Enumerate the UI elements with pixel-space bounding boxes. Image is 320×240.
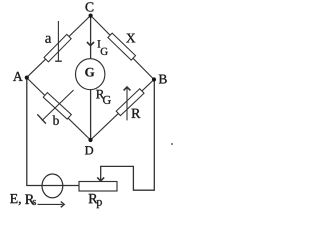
label R — [132, 109, 141, 118]
label b — [53, 115, 59, 125]
variable arrow line of resistor R — [126, 88, 128, 120]
label A — [13, 72, 23, 81]
node C dot — [89, 14, 93, 18]
node D dot — [88, 138, 92, 142]
label R of R_p — [89, 194, 98, 203]
node B dot — [152, 77, 156, 81]
potentiometer Rp box — [79, 182, 117, 192]
arrowhead of current I_G — [87, 42, 94, 46]
node A dot — [25, 76, 29, 80]
label D — [85, 146, 93, 154]
resistor b — [43, 93, 71, 120]
wire from potentiometer wiper up and around to node B — [101, 80, 155, 191]
slider end bar of resistor b — [37, 114, 46, 123]
arrow after label E,Rs — [38, 203, 63, 205]
wire C-D through galvanometer — [90, 16, 92, 141]
wire C-B — [91, 16, 154, 80]
subscript G of R_G — [103, 96, 111, 104]
label I of I_G — [98, 40, 101, 47]
stray ink speck — [171, 143, 173, 145]
wiper arrowhead onto Rp — [97, 177, 104, 181]
galvanometer letter G — [85, 68, 94, 77]
label E — [10, 194, 21, 205]
label X — [126, 34, 135, 43]
label R of R_G — [96, 90, 104, 99]
label R of R_s — [25, 195, 34, 204]
slider line of resistor a — [57, 21, 59, 61]
subscript p of R_p — [97, 200, 102, 208]
label B — [159, 75, 167, 84]
slider line of resistor b — [42, 90, 74, 121]
galvanometer circle — [76, 59, 105, 90]
slider end bar of resistor a — [55, 60, 62, 62]
wire A-C — [27, 16, 91, 78]
arrowhead of resistor R arrow — [124, 87, 131, 90]
battery E with internal resistance Rs (ellipse) — [42, 174, 63, 198]
wire from A down then right to battery — [27, 78, 79, 186]
label C — [86, 2, 94, 11]
label a — [45, 36, 51, 43]
wire D-B — [91, 80, 155, 141]
resistor X — [108, 33, 136, 60]
subscript s of R_s — [33, 200, 36, 205]
resistor a — [44, 34, 71, 62]
resistor R — [116, 89, 144, 116]
subscript G of I_G — [101, 48, 108, 55]
wire A-D — [27, 78, 91, 140]
